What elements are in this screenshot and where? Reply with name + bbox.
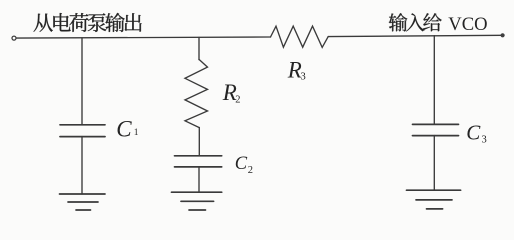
svg-text:2: 2: [248, 165, 253, 176]
svg-text:C: C: [235, 154, 248, 174]
svg-text:3: 3: [482, 135, 487, 146]
svg-text:C: C: [466, 120, 481, 144]
svg-text:3: 3: [301, 72, 306, 83]
svg-text:VCO: VCO: [448, 14, 487, 35]
svg-text:1: 1: [134, 128, 139, 138]
svg-text:2: 2: [235, 94, 240, 105]
svg-text:C: C: [116, 116, 132, 141]
